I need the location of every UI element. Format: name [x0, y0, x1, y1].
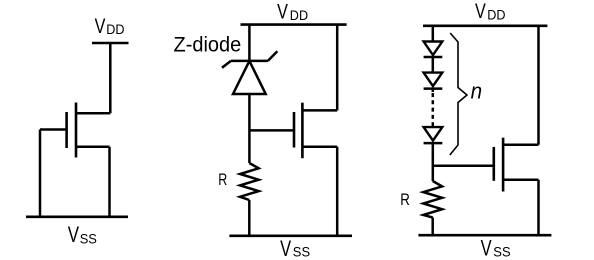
diode Dn triangle — [424, 127, 443, 141]
wire gate lead (left MOSFET) — [40, 128, 67, 131]
svg-text:V: V — [481, 236, 492, 260]
wire drain to VDD (middle) — [336, 25, 339, 111]
svg-text:n: n — [471, 79, 483, 104]
diode D1 triangle — [424, 42, 443, 56]
wire drain stub (middle MOSFET) — [302, 109, 337, 112]
svg-text:SS: SS — [80, 231, 97, 247]
svg-text:DD: DD — [106, 21, 124, 37]
svg-text:V: V — [475, 0, 486, 23]
zener diode Z1 triangle — [233, 61, 266, 94]
svg-text:R: R — [218, 171, 227, 189]
wire drain stub (left MOSFET) — [76, 112, 110, 115]
label n (diode count) — [471, 79, 483, 104]
power rail VDD (right circuit) — [423, 24, 547, 27]
power rail VSS (left circuit) — [26, 216, 128, 219]
wire source to VSS (right) — [537, 180, 540, 235]
wire zener anode to resistor R — [248, 94, 251, 163]
transistor M1 gate bar (left NMOS) — [65, 112, 68, 148]
svg-text:V: V — [280, 236, 291, 260]
node VSS label (middle circuit) — [280, 236, 310, 260]
wire D2 down (dotted continuation) — [432, 89, 435, 92]
svg-text:SS: SS — [293, 243, 310, 259]
wire gate lead (middle MOSFET) — [249, 129, 294, 132]
wire gate lead (right MOSFET) — [433, 165, 494, 168]
transistor M2 channel bar (middle NMOS) — [301, 103, 304, 159]
node VDD label (right circuit) — [475, 0, 506, 23]
wire gate to VSS (left) — [39, 130, 42, 217]
wire drain to VDD (left) — [109, 43, 112, 113]
power rail VDD bar (left circuit) — [92, 42, 129, 45]
wire source to VSS (left) — [108, 147, 111, 217]
svg-text:V: V — [277, 0, 288, 23]
wire source stub (right MOSFET) — [503, 179, 538, 182]
svg-text:DD: DD — [487, 6, 505, 22]
transistor M1 channel bar (left NMOS) — [75, 103, 78, 158]
svg-text:DD: DD — [290, 7, 308, 23]
transistor M3 channel bar (right NMOS) — [502, 138, 505, 192]
zener diode Z1 cathode bar — [231, 60, 268, 63]
node VDD label (left circuit) — [95, 15, 125, 38]
svg-text:V: V — [95, 15, 106, 38]
diode D2 cathode bar — [424, 87, 443, 90]
label R (middle resistor) — [218, 171, 227, 189]
zener diode Z1 right wing — [268, 51, 277, 61]
wire VDD to zener cathode — [248, 25, 251, 61]
label Z-diode — [174, 32, 242, 56]
wire Dn to resistor R (right) — [432, 143, 435, 181]
svg-text:SS: SS — [493, 243, 510, 259]
wire VDD to diode D1 — [432, 26, 435, 42]
resistor R (middle) zigzag — [240, 163, 259, 200]
diode D2 triangle — [424, 73, 443, 87]
power rail VSS (middle circuit) — [229, 235, 352, 238]
transistor M3 gate bar (right NMOS) — [492, 147, 495, 181]
wire D1 to D2 — [432, 57, 435, 73]
diode Dn cathode bar — [424, 142, 443, 145]
svg-text:R: R — [400, 191, 410, 209]
wire drain stub (right MOSFET) — [503, 144, 538, 147]
wire resistor to VSS (middle) — [248, 200, 251, 236]
wire resistor to VSS (right) — [431, 218, 434, 236]
node VSS label (left circuit) — [68, 222, 97, 247]
node VDD label (middle circuit) — [277, 0, 308, 23]
transistor M2 gate bar (middle NMOS) — [293, 112, 296, 148]
wire source stub (middle MOSFET) — [302, 146, 337, 149]
brace n-count — [450, 33, 467, 155]
wire source to VSS (middle) — [336, 147, 339, 236]
power rail VSS (right circuit) — [418, 234, 551, 237]
power rail VDD (middle circuit) — [241, 23, 347, 26]
svg-text:Z-diode: Z-diode — [174, 32, 242, 56]
wire dashed (omitted diodes) — [432, 93, 435, 126]
wire source stub (left MOSFET) — [76, 145, 110, 148]
diode D1 cathode bar — [424, 56, 443, 59]
resistor R (right) zigzag — [423, 181, 442, 218]
node VSS label (right circuit) — [481, 236, 511, 260]
zener diode Z1 left wing — [222, 61, 231, 68]
svg-text:V: V — [68, 222, 79, 247]
label R (right resistor) — [400, 191, 410, 209]
wire drain to VDD (right) — [537, 26, 540, 145]
